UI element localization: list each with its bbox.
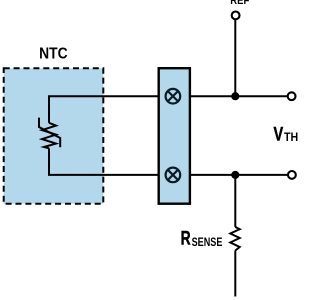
wire terminal block to VTH node (row 1) <box>190 95 287 97</box>
terminal pin 2 circled-X <box>166 168 181 183</box>
NTC enclosure box (dashed) <box>4 68 104 203</box>
REF terminal open circle <box>232 12 240 20</box>
wire thermistor top lead <box>48 96 50 123</box>
wire thermistor bottom lead <box>48 148 50 175</box>
node B junction dot <box>231 171 239 179</box>
thermistor NTC strike mark <box>39 118 60 148</box>
wire RSENSE bottom lead <box>234 251 236 297</box>
terminal block (connector) <box>159 68 190 204</box>
wire terminal block to RSENSE node (row 2) <box>190 174 288 176</box>
svg-text:REF: REF <box>230 0 249 7</box>
VTH open circle terminal <box>288 92 296 100</box>
wire thermistor top to terminal block <box>48 95 158 97</box>
row2 open circle terminal <box>288 171 296 179</box>
svg-text:V: V <box>274 124 284 146</box>
resistor RSENSE zigzag <box>230 227 239 251</box>
terminal pin 1 circled-X <box>166 89 181 104</box>
svg-text:TH: TH <box>284 130 298 144</box>
svg-text:SENSE: SENSE <box>192 235 223 249</box>
wire node B down to RSENSE <box>234 175 236 227</box>
wire thermistor bottom to terminal block <box>48 174 158 176</box>
node A junction dot <box>231 92 239 100</box>
svg-text:NTC: NTC <box>39 46 68 63</box>
thermistor RT zigzag <box>42 123 56 149</box>
svg-text:R: R <box>181 227 191 249</box>
wire REF down to node A <box>234 20 236 96</box>
